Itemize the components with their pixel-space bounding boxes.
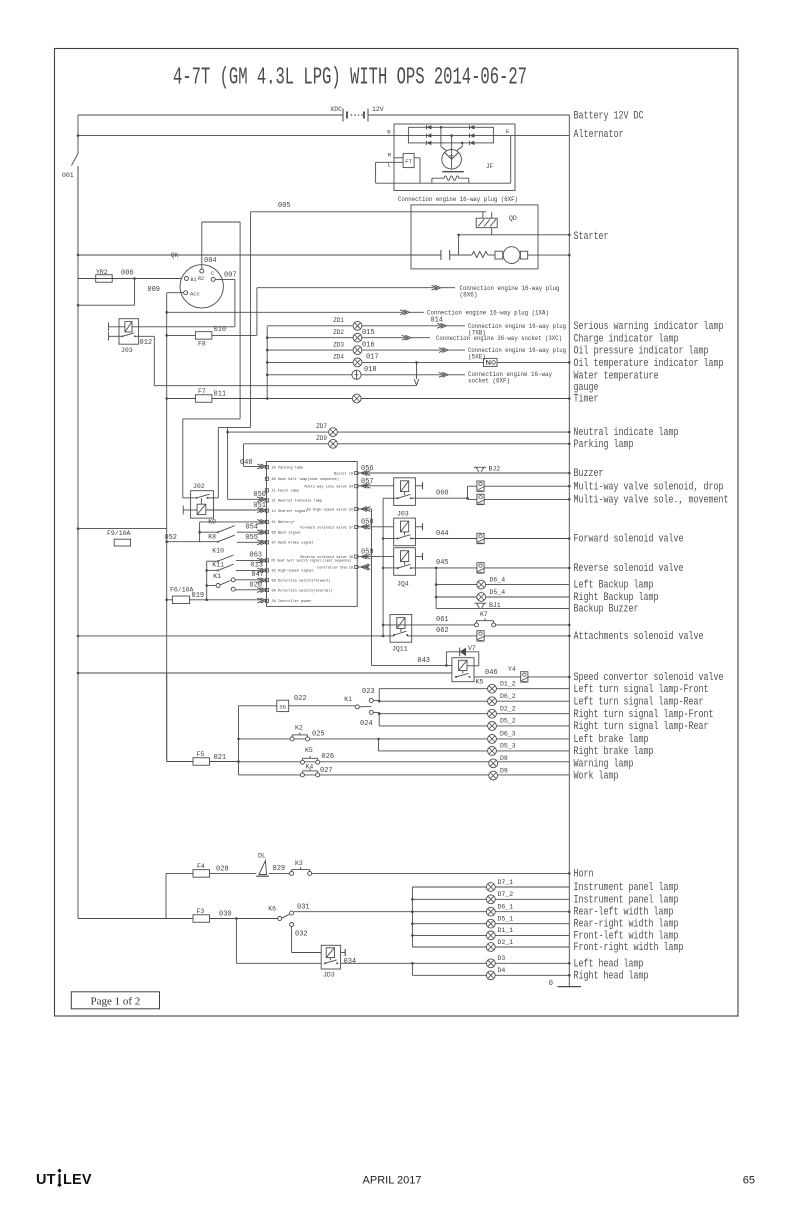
wire 006 jog bbox=[78, 279, 135, 306]
svg-text:K10: K10 bbox=[212, 548, 224, 555]
wire F4 feed bbox=[165, 873, 167, 918]
svg-text:LEV: LEV bbox=[63, 1172, 92, 1188]
arrow 047 bbox=[257, 578, 266, 583]
node F6 bus bbox=[165, 599, 168, 602]
battery GB bbox=[343, 109, 368, 122]
svg-text:69 Direction switch(reversal): 69 Direction switch(reversal) bbox=[272, 588, 333, 593]
svg-text:059: 059 bbox=[361, 548, 374, 556]
svg-text:K9: K9 bbox=[208, 519, 216, 526]
svg-text:K5: K5 bbox=[305, 747, 313, 754]
node LR turn bbox=[378, 700, 381, 703]
alternator stator bar bbox=[442, 171, 464, 173]
wire 8X6 stub bbox=[441, 287, 455, 289]
generator G1 bbox=[442, 150, 462, 170]
wire 013 row bbox=[236, 569, 261, 571]
wire backup bracket bbox=[435, 568, 437, 609]
wire multiway drop row bbox=[468, 485, 570, 487]
node starter bus bbox=[568, 234, 571, 237]
lamp D2_1 bbox=[486, 943, 495, 952]
svg-text:Speed convertor solenoid valve: Speed convertor solenoid valve bbox=[574, 672, 724, 684]
lamp D5_2 bbox=[488, 722, 497, 731]
node relay2 feed bbox=[382, 537, 385, 540]
svg-text:ZD3: ZD3 bbox=[333, 341, 344, 348]
svg-text:JQ4: JQ4 bbox=[397, 581, 409, 588]
wire F8 row bbox=[167, 334, 257, 336]
svg-text:DL: DL bbox=[258, 853, 266, 860]
wire starter main bbox=[78, 254, 441, 256]
border frame bbox=[55, 49, 739, 1017]
svg-text:D1_1: D1_1 bbox=[498, 927, 514, 934]
wire head lamp row bbox=[341, 962, 570, 964]
node K bracket 019 bbox=[205, 599, 208, 602]
svg-text:67 Hand brake signal: 67 Hand brake signal bbox=[272, 541, 314, 546]
lamp D3 bbox=[486, 959, 495, 968]
svg-text:Forward solenoid valve: Forward solenoid valve bbox=[574, 534, 684, 546]
node head bus2 bbox=[568, 974, 571, 977]
svg-text:UT: UT bbox=[36, 1172, 56, 1188]
wire ZD1 row bbox=[267, 325, 440, 327]
buzzer BJ1 bbox=[475, 603, 487, 608]
wire width row rr bbox=[412, 923, 569, 925]
svg-text:30 Controller power: 30 Controller power bbox=[272, 599, 312, 604]
arrow 020 bbox=[257, 588, 266, 593]
svg-text:66 Back signal: 66 Back signal bbox=[272, 531, 302, 536]
switch K1 turn bbox=[355, 699, 373, 715]
svg-text:Warning lamp: Warning lamp bbox=[574, 759, 634, 771]
wire ZD4 row bbox=[267, 361, 569, 363]
fuse F6/10A bbox=[172, 596, 189, 604]
node F9 bus bbox=[77, 527, 80, 530]
svg-text:Right brake lamp: Right brake lamp bbox=[574, 746, 654, 758]
wire LR turn row bbox=[379, 700, 569, 702]
relay K5 bbox=[452, 658, 474, 682]
svg-text:D4: D4 bbox=[498, 967, 506, 974]
svg-text:D6_3: D6_3 bbox=[500, 731, 516, 738]
lamp D6_1 bbox=[486, 907, 495, 916]
node reverse bus bbox=[568, 567, 571, 570]
node width rr bbox=[411, 922, 414, 925]
svg-text:K7: K7 bbox=[480, 611, 488, 618]
svg-text:62 High-speed valve 33: 62 High-speed valve 33 bbox=[307, 507, 353, 512]
wire FT right bbox=[414, 158, 420, 183]
fuse F3 bbox=[193, 915, 210, 923]
wire 063 row bbox=[236, 560, 261, 562]
wire right bus bbox=[568, 115, 570, 987]
svg-text:DC: DC bbox=[449, 154, 455, 160]
svg-text:048: 048 bbox=[240, 459, 253, 467]
lamp D5_1 bbox=[486, 919, 495, 928]
svg-text:D2_2: D2_2 bbox=[500, 706, 516, 713]
svg-text:BJ1: BJ1 bbox=[489, 602, 501, 609]
svg-text:D6_2: D6_2 bbox=[500, 693, 516, 700]
svg-text:028: 028 bbox=[216, 866, 229, 874]
node motor bus bbox=[568, 254, 571, 257]
svg-text:D5_3: D5_3 bbox=[500, 743, 516, 750]
svg-text:034: 034 bbox=[344, 958, 357, 966]
arrow 057 bbox=[361, 483, 370, 488]
node ZD3 bbox=[266, 349, 269, 352]
wire J02 left contact stub bbox=[183, 497, 195, 499]
solenoid reverse bbox=[477, 563, 484, 573]
svg-text:K5: K5 bbox=[476, 679, 484, 686]
svg-text:ZD4: ZD4 bbox=[333, 354, 344, 361]
fuse F9 spare bbox=[114, 539, 130, 546]
wire resistor to motor bbox=[488, 254, 495, 256]
controller U1 box bbox=[267, 462, 358, 607]
wire J03 contact row bbox=[109, 336, 417, 385]
switch K5 warn bbox=[300, 760, 304, 764]
lamp D7_1 bbox=[486, 883, 495, 892]
node neutral bus bbox=[568, 431, 571, 434]
svg-text:ZD7: ZD7 bbox=[316, 423, 327, 430]
svg-text:10 Parking lamp: 10 Parking lamp bbox=[272, 465, 304, 470]
node horn bus2 bbox=[568, 910, 571, 913]
solenoid multiway movement bbox=[477, 494, 484, 504]
node forward bus bbox=[568, 537, 571, 540]
svg-text:030: 030 bbox=[219, 911, 232, 919]
svg-text:Rear-right width lamp: Rear-right width lamp bbox=[574, 919, 679, 931]
wire battery+ row bbox=[200, 521, 261, 523]
wire 046 row bbox=[474, 676, 569, 678]
svg-text:015: 015 bbox=[362, 329, 375, 337]
svg-text:F8: F8 bbox=[198, 341, 206, 348]
node water bbox=[266, 374, 269, 377]
node brake split bbox=[377, 738, 380, 741]
lamp ZD1 bbox=[353, 321, 362, 330]
switch K10 bbox=[207, 555, 234, 562]
node 061 feed bbox=[382, 624, 385, 627]
svg-text:QK: QK bbox=[171, 252, 179, 259]
label plug 8X6 bbox=[460, 285, 560, 298]
relay J04 forward bbox=[394, 518, 416, 546]
ignition switch QK bbox=[180, 265, 223, 308]
svg-text:F9/10A: F9/10A bbox=[107, 530, 131, 537]
arrow 054 bbox=[257, 530, 266, 535]
wire K9K8 bracket bbox=[199, 522, 201, 542]
svg-text:F6/10A: F6/10A bbox=[170, 587, 194, 594]
svg-text:Charge indicator lamp: Charge indicator lamp bbox=[574, 333, 679, 345]
wire coil drop bbox=[432, 178, 469, 183]
arrow 019 bbox=[257, 598, 266, 603]
wire 005 row bbox=[251, 211, 486, 213]
arrow 5XE bbox=[439, 348, 448, 353]
node F7 bracket bbox=[266, 397, 269, 400]
switch K9 bbox=[198, 526, 234, 534]
switch K11 bbox=[205, 564, 233, 572]
label plug 5XE bbox=[448, 347, 566, 361]
switch K8 bbox=[200, 535, 235, 543]
svg-text:050: 050 bbox=[253, 491, 266, 499]
svg-text:Multi-way sole valve 34: Multi-way sole valve 34 bbox=[305, 485, 353, 490]
terminal Acc bbox=[184, 290, 200, 297]
node width fl bbox=[411, 934, 414, 937]
switch K3 bbox=[290, 871, 294, 875]
svg-text:J03: J03 bbox=[121, 347, 133, 354]
wire 052 row bbox=[167, 541, 200, 543]
switch K6 bbox=[278, 911, 294, 926]
svg-text:045: 045 bbox=[436, 559, 449, 567]
wire ZD7 feed bbox=[227, 427, 229, 499]
wire controller gnd stub bbox=[358, 566, 368, 568]
fuse YR2 bbox=[96, 275, 113, 283]
svg-text:012: 012 bbox=[140, 339, 153, 347]
svg-text:APRIL 2017: APRIL 2017 bbox=[363, 1175, 422, 1187]
svg-text:011: 011 bbox=[214, 391, 227, 399]
wire head bracket bbox=[411, 963, 413, 975]
wire left bus upper bbox=[77, 115, 79, 154]
lamp D5_4 bbox=[477, 593, 486, 602]
svg-text:010: 010 bbox=[214, 326, 227, 334]
svg-text:JQ11: JQ11 bbox=[392, 646, 408, 653]
svg-text:Front-right width lamp: Front-right width lamp bbox=[574, 942, 684, 954]
svg-text:ZD2: ZD2 bbox=[333, 329, 344, 336]
starter contact bars bbox=[441, 250, 450, 260]
svg-text:61 Battery+: 61 Battery+ bbox=[272, 520, 295, 525]
wire right brake row bbox=[379, 739, 570, 751]
svg-text:Right turn signal lamp-Rear: Right turn signal lamp-Rear bbox=[574, 721, 709, 733]
wire width row fr bbox=[412, 946, 569, 948]
node multiway junction bbox=[466, 497, 469, 500]
svg-text:007: 007 bbox=[224, 272, 237, 280]
svg-text:D5_4: D5_4 bbox=[490, 589, 506, 596]
svg-text:Left brake lamp: Left brake lamp bbox=[574, 734, 649, 746]
svg-text:D3: D3 bbox=[498, 955, 506, 962]
svg-text:019: 019 bbox=[192, 592, 205, 600]
lamp ZD3 bbox=[353, 346, 362, 355]
wire ZD3 row bbox=[267, 349, 442, 351]
svg-text:F5: F5 bbox=[197, 751, 205, 758]
wire 047 row bbox=[235, 579, 261, 581]
terminal B1 bbox=[184, 277, 196, 284]
svg-text:D2_1: D2_1 bbox=[498, 939, 514, 946]
svg-text:Connection engine 36-way socke: Connection engine 36-way socket (3XC) bbox=[436, 335, 562, 342]
wire relay feed bus bbox=[382, 498, 384, 636]
alternator diode box bbox=[408, 127, 493, 143]
svg-text:B1: B1 bbox=[191, 277, 197, 283]
arrow 3XC bbox=[402, 335, 411, 340]
svg-text:V7: V7 bbox=[468, 645, 476, 652]
switch 001 bbox=[72, 154, 79, 256]
svg-text:Acc: Acc bbox=[190, 290, 200, 297]
wire instrument row 2 bbox=[412, 898, 569, 900]
svg-text:Water temperature: Water temperature bbox=[574, 371, 659, 383]
wire 054 row bbox=[237, 531, 261, 533]
svg-text:023: 023 bbox=[362, 688, 375, 696]
relay J03 left bbox=[119, 319, 139, 345]
svg-text:J02: J02 bbox=[193, 483, 205, 490]
svg-text:ZD1: ZD1 bbox=[333, 317, 344, 324]
svg-text:K11: K11 bbox=[212, 562, 224, 569]
node 006 junction bbox=[133, 277, 136, 280]
wire E drop bbox=[510, 136, 512, 184]
node head bus bbox=[568, 962, 571, 965]
wire battery to right bus bbox=[368, 114, 570, 116]
wire 056 buzzer row bbox=[358, 472, 569, 474]
wire Acc out bbox=[167, 293, 184, 762]
lamp D2_2 bbox=[488, 709, 497, 718]
wire F9 row bbox=[78, 528, 167, 530]
svg-text:Attachments solenoid valve: Attachments solenoid valve bbox=[574, 631, 704, 643]
svg-text:SG: SG bbox=[279, 704, 286, 711]
lamp D6_3 bbox=[488, 735, 497, 744]
svg-text:Connection engine 16-way plug: Connection engine 16-way plug (1XA) bbox=[427, 310, 549, 317]
svg-text:016: 016 bbox=[362, 341, 375, 349]
svg-text:Front-left width lamp: Front-left width lamp bbox=[574, 930, 679, 942]
wire F6 row bbox=[167, 599, 261, 601]
svg-text:K1: K1 bbox=[344, 696, 352, 703]
wire width bracket bbox=[411, 887, 413, 947]
node sol1 bus bbox=[568, 485, 571, 488]
node F5 junction bbox=[237, 760, 240, 763]
wire right head row bbox=[412, 974, 569, 976]
fuse F8 bbox=[195, 332, 212, 340]
wire warning row bbox=[239, 761, 570, 763]
wire brake row bbox=[239, 738, 570, 740]
lamp D6_4 bbox=[477, 580, 486, 589]
svg-text:XDC: XDC bbox=[330, 106, 342, 113]
wire K5 coil bar bbox=[467, 665, 479, 667]
node horn bus bbox=[568, 872, 571, 875]
wire YR2 row bbox=[78, 278, 184, 280]
wire relay3 coil bar bbox=[415, 556, 422, 558]
wire VA riser bbox=[183, 222, 240, 498]
wire 051 row bbox=[183, 509, 261, 511]
ground 0 bbox=[558, 986, 582, 988]
svg-text:025: 025 bbox=[312, 731, 325, 739]
node ZD7 junction bbox=[226, 431, 229, 434]
wire JD3 coil bar bbox=[341, 952, 346, 954]
node 062 feed bbox=[382, 635, 385, 638]
controller left pins bbox=[265, 465, 351, 604]
svg-text:Rear-left width lamp: Rear-left width lamp bbox=[574, 907, 674, 919]
wire F3 row bbox=[78, 918, 278, 920]
arrow oil temp drop bbox=[414, 379, 419, 385]
wire left backup row bbox=[436, 584, 569, 586]
wire 061 row bbox=[383, 624, 569, 626]
svg-text:K1: K1 bbox=[213, 573, 221, 580]
svg-text:Left Backup lamp: Left Backup lamp bbox=[574, 580, 654, 592]
svg-text:63 High-speed signal: 63 High-speed signal bbox=[272, 569, 314, 574]
wire 062 row bbox=[78, 635, 569, 637]
wire relay1 coil bar bbox=[415, 485, 422, 487]
svg-text:058: 058 bbox=[361, 519, 374, 527]
alternator field coil bbox=[432, 176, 469, 181]
wire motor to bus bbox=[528, 254, 570, 256]
svg-text:D8: D8 bbox=[500, 755, 508, 762]
svg-text:Right Backup lamp: Right Backup lamp bbox=[574, 592, 659, 604]
wire J03 coil row bbox=[109, 326, 235, 328]
svg-text:(8X6): (8X6) bbox=[460, 292, 478, 299]
lamp ZD4 bbox=[353, 358, 362, 367]
svg-text:D7_1: D7_1 bbox=[498, 879, 514, 886]
svg-text:017: 017 bbox=[366, 354, 379, 362]
wire speed feed row bbox=[78, 672, 452, 674]
svg-text:4-7T (GM 4.3L LPG) WITH OPS 20: 4-7T (GM 4.3L LPG) WITH OPS 2014-06-27 bbox=[173, 65, 527, 92]
lamp ZD7 bbox=[329, 428, 338, 437]
gauge water temp bbox=[352, 370, 361, 379]
node bus jog bbox=[77, 304, 80, 307]
node ZD4 bbox=[266, 361, 269, 364]
wire VB riser bbox=[218, 212, 250, 498]
wire F5 row bbox=[167, 761, 239, 763]
wire alternator main line bbox=[78, 135, 569, 137]
svg-text:Buzzer: Buzzer bbox=[574, 468, 604, 480]
svg-text:Alternator: Alternator bbox=[574, 129, 624, 141]
relay JQ4 reverse bbox=[394, 548, 416, 576]
svg-text:032: 032 bbox=[295, 931, 308, 939]
svg-text:001: 001 bbox=[62, 172, 74, 179]
wire RR turn row bbox=[379, 725, 569, 727]
arrow 013 bbox=[257, 568, 266, 573]
svg-text:F4: F4 bbox=[197, 863, 205, 870]
right label column bbox=[574, 111, 729, 983]
wire ZD bracket bbox=[266, 326, 268, 398]
buzzer BJ2 bbox=[474, 467, 486, 472]
svg-text:K3: K3 bbox=[295, 860, 303, 867]
svg-text:D6_4: D6_4 bbox=[490, 577, 506, 584]
svg-text:Left head lamp: Left head lamp bbox=[574, 958, 644, 970]
svg-text:009: 009 bbox=[147, 286, 160, 294]
timer icon N bbox=[484, 358, 498, 366]
node bus starter junction bbox=[77, 254, 80, 257]
starter motor M bbox=[495, 247, 528, 264]
arrow 050 bbox=[257, 497, 266, 502]
svg-text:C: C bbox=[211, 271, 214, 277]
wire 057 row bbox=[358, 485, 394, 487]
svg-text:Multi-way valve solenoid, drop: Multi-way valve solenoid, drop bbox=[574, 481, 724, 493]
wire 020 row bbox=[235, 589, 261, 591]
svg-text:K8: K8 bbox=[208, 534, 216, 541]
wire 8X6 feed bbox=[257, 288, 435, 336]
svg-text:Oil pressure indicator lamp: Oil pressure indicator lamp bbox=[574, 346, 709, 358]
svg-text:L: L bbox=[388, 162, 391, 169]
svg-text:Backup Buzzer: Backup Buzzer bbox=[574, 604, 639, 616]
relay J02 bbox=[191, 491, 214, 518]
lamp D9 bbox=[489, 771, 498, 780]
logo UTILEV bbox=[36, 1169, 92, 1189]
svg-text:018: 018 bbox=[364, 366, 377, 374]
svg-text:Connection engine 16-way plug: Connection engine 16-way plug (6XF) bbox=[398, 196, 518, 203]
svg-text:029: 029 bbox=[273, 865, 286, 873]
svg-text:Right head lamp: Right head lamp bbox=[574, 970, 649, 982]
wire instrument row 1 bbox=[412, 886, 569, 888]
terminal bar J02 bbox=[182, 506, 184, 515]
svg-text:Y4: Y4 bbox=[508, 666, 516, 673]
svg-text:12V: 12V bbox=[372, 106, 384, 113]
wire 007 from C bbox=[215, 279, 235, 326]
svg-text:063: 063 bbox=[249, 552, 262, 560]
starter solenoid coil bbox=[476, 212, 497, 228]
wire relay2 coil bar bbox=[415, 526, 422, 528]
svg-text:Multi-way valve sole., movemen: Multi-way valve sole., movement bbox=[574, 495, 729, 507]
wire 032 drop bbox=[292, 927, 322, 953]
wire diode verticals bbox=[440, 126, 464, 152]
wire contact to resistor bbox=[450, 235, 472, 255]
arrow 055 bbox=[257, 540, 266, 545]
svg-text:Instrument panel lamp: Instrument panel lamp bbox=[574, 882, 679, 894]
svg-text:F7: F7 bbox=[198, 388, 206, 395]
lamp D1_2 bbox=[488, 684, 497, 693]
node buzzer bus bbox=[568, 472, 571, 475]
wire ZD2 row bbox=[267, 337, 405, 339]
terminal bar J03 contact bbox=[108, 332, 110, 341]
svg-text:65: 65 bbox=[743, 1175, 755, 1187]
lamp D7_2 bbox=[486, 895, 495, 904]
svg-text:054: 054 bbox=[245, 524, 258, 532]
lamp ZD2 bbox=[353, 333, 362, 342]
wire 043 row bbox=[372, 664, 452, 666]
svg-text:Right turn signal lamp-Front: Right turn signal lamp-Front bbox=[574, 709, 714, 721]
